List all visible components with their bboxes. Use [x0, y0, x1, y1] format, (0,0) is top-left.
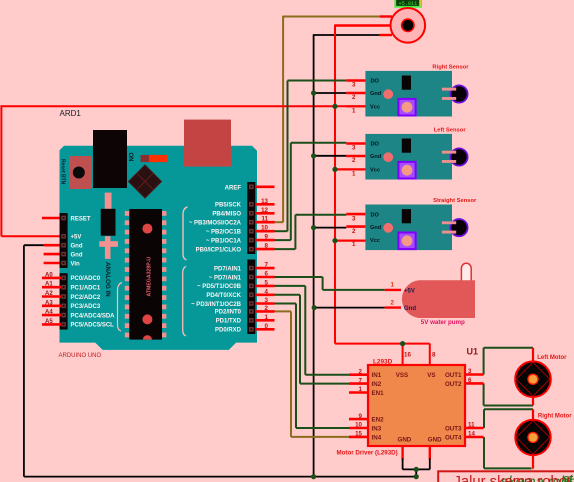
svg-text:PD2/INT0: PD2/INT0 — [215, 310, 242, 316]
svg-text:OUT3: OUT3 — [445, 425, 462, 432]
svg-text:A0: A0 — [45, 272, 53, 278]
svg-text:~ PB2/OC1B: ~ PB2/OC1B — [206, 230, 242, 236]
svg-text:PD4/T0/XCK: PD4/T0/XCK — [206, 293, 241, 299]
svg-text:DO: DO — [371, 142, 380, 148]
svg-text:1: 1 — [391, 282, 395, 289]
svg-text:EN2: EN2 — [372, 417, 385, 424]
svg-text:1: 1 — [265, 314, 269, 321]
svg-text:PB5/SCK: PB5/SCK — [215, 203, 242, 209]
svg-text:Gnd: Gnd — [71, 252, 83, 258]
svg-text:PD0/RXD: PD0/RXD — [215, 328, 242, 334]
svg-text:Gnd: Gnd — [370, 154, 382, 160]
svg-text:9: 9 — [359, 413, 363, 420]
svg-text:Gnd: Gnd — [370, 225, 382, 231]
svg-text:RESET: RESET — [71, 216, 91, 222]
svg-text:16: 16 — [404, 351, 411, 358]
svg-text:9: 9 — [265, 234, 269, 241]
svg-text:2: 2 — [352, 228, 356, 235]
svg-text:8: 8 — [432, 351, 436, 358]
svg-text:A1: A1 — [45, 282, 53, 288]
svg-text:IN4: IN4 — [372, 434, 382, 441]
svg-text:Motor Driver (L293D): Motor Driver (L293D) — [337, 450, 398, 457]
svg-text:Left Motor: Left Motor — [537, 355, 567, 361]
svg-text:+5.011: +5.011 — [399, 1, 418, 7]
svg-text:ON: ON — [127, 153, 133, 162]
svg-text:7: 7 — [265, 262, 269, 269]
svg-text:DO: DO — [371, 212, 380, 218]
svg-text:~ PD5/T1/OC0B: ~ PD5/T1/OC0B — [197, 284, 242, 290]
svg-text:VS: VS — [427, 372, 435, 379]
svg-text:Vin: Vin — [71, 261, 81, 267]
svg-text:11: 11 — [261, 216, 268, 223]
svg-text:PC2/ADC2: PC2/ADC2 — [71, 295, 101, 301]
svg-text:~ PD7/AIN1: ~ PD7/AIN1 — [209, 275, 242, 281]
svg-text:2: 2 — [352, 157, 356, 164]
svg-text:GND: GND — [398, 437, 412, 444]
svg-text:PC3/ADC3: PC3/ADC3 — [71, 304, 101, 310]
svg-text:11: 11 — [468, 422, 475, 429]
svg-text:st: st — [563, 473, 574, 482]
svg-text:3: 3 — [468, 368, 472, 375]
svg-text:IN2: IN2 — [372, 381, 382, 388]
svg-text:~ PB3/MOSI/OC2A: ~ PB3/MOSI/OC2A — [189, 221, 242, 227]
svg-text:~ PB1/OC1A: ~ PB1/OC1A — [206, 238, 242, 244]
svg-text:3: 3 — [352, 82, 356, 89]
svg-text:4: 4 — [265, 288, 269, 295]
svg-text:1: 1 — [352, 171, 356, 178]
svg-text:2: 2 — [265, 305, 269, 312]
svg-text:Right Motor: Right Motor — [538, 413, 572, 419]
svg-text:AREF: AREF — [225, 185, 242, 191]
svg-text:ARDUINO UNO: ARDUINO UNO — [59, 353, 102, 359]
svg-text:2: 2 — [359, 368, 363, 375]
svg-text:10: 10 — [355, 422, 362, 429]
svg-text:~ PD3/INT1/OC2B: ~ PD3/INT1/OC2B — [191, 302, 242, 308]
svg-text:OUT1: OUT1 — [445, 372, 462, 379]
svg-text:A2: A2 — [45, 291, 53, 297]
svg-text:ARD1: ARD1 — [60, 109, 82, 118]
svg-text:OUT2: OUT2 — [445, 381, 462, 388]
svg-text:5: 5 — [265, 279, 269, 286]
svg-text:L293D: L293D — [373, 359, 393, 366]
svg-text:2: 2 — [352, 94, 356, 101]
svg-text:PC0/ADC0: PC0/ADC0 — [71, 276, 101, 282]
svg-text:IN3: IN3 — [372, 425, 382, 432]
svg-text:PB0/ICP1/CLKO: PB0/ICP1/CLKO — [196, 247, 242, 253]
svg-text:15: 15 — [355, 431, 362, 438]
svg-text:1: 1 — [359, 386, 363, 393]
svg-text:Right Sensor: Right Sensor — [432, 65, 469, 71]
svg-text:Jalur skema robot: Jalur skema robot — [454, 474, 572, 482]
svg-text:12: 12 — [261, 207, 268, 214]
svg-text:ATMEGA328P-U: ATMEGA328P-U — [147, 257, 153, 297]
svg-text:VSS: VSS — [396, 372, 408, 379]
svg-text:Gnd: Gnd — [404, 306, 416, 312]
svg-text:A3: A3 — [45, 300, 53, 306]
svg-text:EN1: EN1 — [372, 390, 385, 397]
svg-text:Vcc: Vcc — [370, 168, 380, 174]
svg-text:1: 1 — [352, 241, 356, 248]
svg-text:ANALOG IN: ANALOG IN — [104, 262, 111, 297]
svg-text:5V water pump: 5V water pump — [421, 319, 465, 326]
svg-text:8: 8 — [265, 243, 269, 250]
svg-text:A5: A5 — [45, 319, 53, 325]
svg-text:U1: U1 — [467, 347, 479, 357]
svg-text:Vcc: Vcc — [370, 105, 380, 111]
svg-text:Reset BTN: Reset BTN — [60, 159, 66, 185]
svg-text:GND: GND — [428, 437, 442, 444]
svg-text:Gnd: Gnd — [71, 244, 83, 250]
svg-text:3: 3 — [352, 145, 356, 152]
svg-text:6: 6 — [468, 377, 472, 384]
svg-text:Vcc: Vcc — [370, 238, 380, 244]
svg-text:OUT4: OUT4 — [445, 434, 462, 441]
svg-text:A4: A4 — [45, 310, 53, 316]
svg-text:Left Sensor: Left Sensor — [434, 128, 467, 134]
svg-text:PD1/TXD: PD1/TXD — [216, 319, 242, 325]
svg-text:Gnd: Gnd — [370, 91, 382, 97]
svg-text:10: 10 — [261, 225, 268, 232]
svg-text:Straight Sensor: Straight Sensor — [433, 198, 477, 204]
svg-text:+5V: +5V — [71, 235, 82, 241]
svg-text:PC4/ADC4/SDA: PC4/ADC4/SDA — [71, 313, 116, 319]
svg-text:PC1/ADC1: PC1/ADC1 — [71, 286, 101, 292]
svg-text:+5V: +5V — [404, 288, 415, 294]
svg-text:0: 0 — [265, 323, 269, 330]
svg-text:2: 2 — [391, 299, 395, 306]
svg-text:1: 1 — [352, 108, 356, 115]
svg-text:PB4/MISO: PB4/MISO — [212, 212, 241, 218]
svg-text:14: 14 — [468, 431, 475, 438]
svg-text:13: 13 — [261, 198, 268, 205]
svg-text:6: 6 — [265, 271, 269, 278]
svg-text:PC5/ADC5/SCL: PC5/ADC5/SCL — [71, 323, 115, 329]
svg-text:PD7/AIN1: PD7/AIN1 — [214, 266, 242, 272]
svg-text:3: 3 — [352, 215, 356, 222]
svg-text:3: 3 — [265, 297, 269, 304]
svg-text:DO: DO — [371, 79, 380, 85]
svg-text:7: 7 — [359, 377, 363, 384]
svg-text:IN1: IN1 — [372, 372, 382, 379]
